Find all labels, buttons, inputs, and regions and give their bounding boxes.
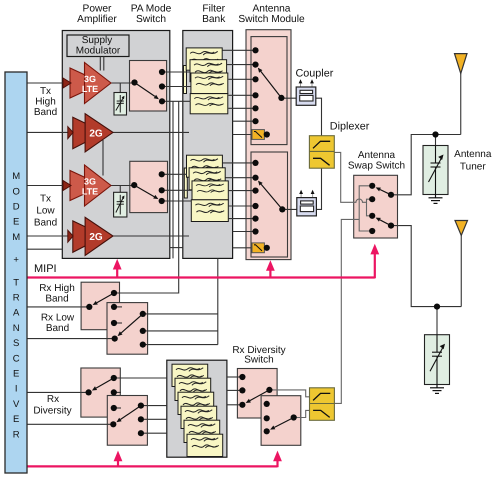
svg-text:V: V [13, 399, 20, 410]
svg-text:Supply: Supply [82, 35, 113, 46]
svg-text:S: S [13, 338, 19, 349]
svg-text:E: E [13, 217, 19, 228]
svg-text:M: M [12, 171, 20, 182]
svg-text:Bank: Bank [202, 14, 226, 25]
svg-text:Band: Band [46, 323, 69, 334]
svg-text:LTE: LTE [82, 186, 98, 196]
svg-text:Rx Low: Rx Low [41, 312, 75, 323]
svg-text:R: R [13, 429, 20, 440]
svg-text:Diversity: Diversity [33, 406, 71, 417]
svg-text:2G: 2G [89, 232, 103, 243]
svg-text:E: E [13, 414, 19, 425]
svg-text:Antenna: Antenna [454, 149, 492, 160]
svg-text:2G: 2G [89, 128, 103, 139]
svg-text:Tx: Tx [40, 86, 51, 97]
svg-text:T: T [13, 277, 19, 288]
svg-text:Band: Band [45, 294, 68, 305]
svg-text:N: N [13, 323, 20, 334]
svg-text:R: R [13, 293, 20, 304]
svg-text:Modulator: Modulator [76, 46, 121, 57]
svg-text:Swap Switch: Swap Switch [348, 160, 405, 171]
svg-text:Band: Band [34, 218, 57, 229]
svg-text:A: A [13, 308, 20, 319]
svg-text:M: M [12, 232, 20, 243]
svg-text:+: + [13, 255, 19, 266]
svg-text:LTE: LTE [82, 84, 98, 94]
svg-text:Rx High: Rx High [39, 283, 75, 294]
svg-text:High: High [35, 97, 56, 108]
svg-text:3G: 3G [84, 177, 96, 187]
svg-text:Rx: Rx [47, 394, 59, 405]
svg-text:Amplifier: Amplifier [77, 14, 117, 25]
svg-text:Switch: Switch [244, 355, 273, 366]
svg-text:Band: Band [34, 107, 57, 118]
svg-text:MIPI: MIPI [34, 263, 57, 275]
svg-text:E: E [13, 369, 19, 380]
svg-text:C: C [13, 353, 20, 364]
svg-text:I: I [15, 384, 18, 395]
svg-text:O: O [13, 186, 20, 197]
svg-text:Diplexer: Diplexer [330, 121, 370, 133]
svg-text:D: D [13, 202, 20, 213]
svg-text:Switch Module: Switch Module [238, 14, 305, 25]
svg-text:Switch: Switch [136, 14, 166, 25]
svg-text:Tx: Tx [40, 194, 51, 205]
svg-text:Low: Low [36, 206, 55, 217]
svg-text:Coupler: Coupler [295, 68, 333, 80]
svg-text:Tuner: Tuner [460, 161, 486, 172]
svg-text:3G: 3G [84, 74, 96, 84]
